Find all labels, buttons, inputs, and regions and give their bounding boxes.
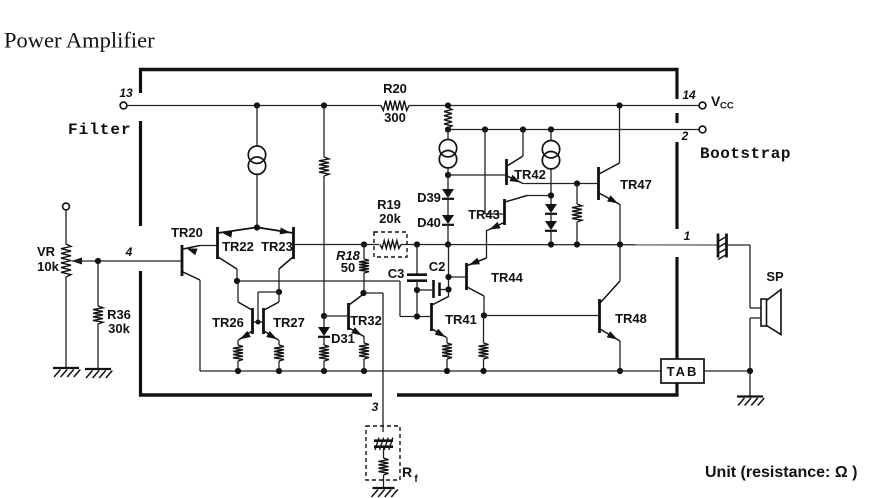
resistor R19 (374, 197, 407, 257)
wire TR22 collector (236, 269, 238, 281)
node pin4-R36 (95, 258, 101, 264)
svg-text:TR47: TR47 (620, 177, 652, 192)
wire TR42 collector (522, 130, 524, 157)
wire Cf-Rf (383, 448, 385, 458)
capacitor C3 (388, 266, 427, 281)
wire SP to ground (749, 318, 751, 396)
wire CS1 bottom (256, 174, 258, 227)
IC outline bottom border segment A (139, 393, 372, 396)
wire VCC rail left (127, 105, 381, 107)
wire R34 bottom (576, 222, 578, 245)
node C2-col (445, 286, 451, 292)
capacitor Cf (hatched) (374, 438, 393, 451)
wire TR48 emitter (619, 341, 621, 371)
svg-text:TR41: TR41 (445, 312, 477, 327)
wire TR20 emitter to TR22 base (200, 245, 216, 247)
svg-text:TAB: TAB (667, 364, 699, 379)
wire CS2 top (550, 130, 552, 142)
svg-text:CC: CC (720, 101, 734, 112)
resistor R18 (336, 248, 369, 275)
inductor L1 (output coil) (718, 234, 727, 260)
wire coil to SP (727, 245, 750, 308)
node rail-C3 (414, 241, 420, 247)
svg-text:4: 4 (125, 245, 133, 259)
node VCC-CS1 (254, 102, 260, 108)
wire TAB to ground (704, 370, 750, 372)
svg-text:2: 2 (681, 129, 689, 143)
svg-text:14: 14 (682, 88, 696, 102)
svg-text:3: 3 (372, 400, 379, 414)
wire R36 top (97, 261, 99, 306)
transistor TR23 (258, 227, 294, 269)
wire C2 left (417, 289, 432, 291)
svg-text:D39: D39 (417, 190, 441, 205)
wire R33 bottom (323, 176, 325, 316)
node rail-D42 (548, 241, 554, 247)
wire bottom rail (200, 370, 661, 372)
wire TR26 collector (237, 281, 239, 302)
wire bootstrap rail (448, 129, 699, 131)
svg-text:Unit (resistance: Ω ): Unit (resistance: Ω ) (705, 464, 857, 481)
IC outline right border segment D (675, 257, 678, 397)
wire TR22 collector to TR41 base (237, 281, 430, 317)
wire C3 top (416, 245, 418, 275)
wire pin 3 (364, 293, 384, 432)
node R22-rail (235, 368, 241, 374)
node VCC-TR47 (616, 102, 622, 108)
node C3-TR41base (414, 313, 420, 319)
wire TR27 collector (278, 292, 280, 302)
svg-text:Bootstrap: Bootstrap (700, 145, 791, 163)
wire CS3 top (447, 130, 449, 141)
transistor TR42 base wire (448, 174, 505, 176)
svg-text:Filter: Filter (68, 121, 132, 139)
transistor TR26 (212, 302, 252, 340)
node mirror bases (256, 320, 261, 325)
wire TR32 emitter (363, 336, 365, 343)
transistor TR44 (467, 258, 524, 296)
diode D39 (417, 189, 454, 205)
IC outline left border segment C (139, 271, 142, 397)
ground R36 (85, 369, 112, 378)
pin 4 wire with wiper arrow (72, 245, 181, 265)
svg-text:C3: C3 (388, 266, 405, 281)
svg-text:R19: R19 (377, 197, 401, 212)
svg-text:TR42: TR42 (514, 167, 546, 182)
wire TR44 base (449, 276, 466, 278)
node TR44base-col (445, 274, 451, 280)
label Bootstrap (700, 145, 791, 163)
transistor TR48 (600, 281, 647, 341)
node CS2-TR43coll (548, 192, 554, 198)
wire TR43 emitter (486, 230, 488, 258)
node CS3-TR42base (445, 172, 451, 178)
diode D40 (417, 215, 454, 230)
svg-text:VR: VR (37, 244, 56, 259)
svg-text:13: 13 (119, 86, 133, 100)
TAB box (661, 359, 704, 383)
resistor R26 (TR41 emitter) (442, 343, 452, 359)
svg-text:D31: D31 (331, 331, 355, 346)
feedback network Rf box (366, 426, 400, 480)
wire D41-D42 (550, 214, 552, 221)
title text (4, 28, 155, 53)
potentiometer VR terminal (63, 203, 70, 210)
resistor R34 (572, 204, 582, 222)
resistor R20 (381, 81, 409, 125)
node TR44coll (481, 312, 487, 318)
node bootstrap-CS2 (548, 126, 554, 132)
wire D39-D40 (447, 199, 449, 215)
wire D40 bottom (447, 225, 449, 245)
pin 1 label (684, 229, 691, 243)
svg-text:10k: 10k (37, 259, 59, 274)
wire TR44 coll to TR48 base (484, 315, 598, 317)
svg-text:TR32: TR32 (350, 313, 382, 328)
svg-text:R36: R36 (107, 307, 131, 322)
wire C3 bottom (416, 281, 418, 317)
wire R18 bottom (363, 273, 365, 293)
wire D31 top (323, 316, 325, 327)
svg-text:TR22: TR22 (222, 239, 254, 254)
transistor TR43 (468, 196, 527, 231)
ground SP (737, 397, 764, 406)
wire R33 top (323, 106, 325, 158)
wire TR44 collector (483, 296, 485, 316)
wire TR32 base (324, 315, 347, 317)
IC outline right border segment B (675, 113, 678, 123)
svg-text:R: R (402, 464, 412, 480)
current source CS1 (248, 146, 265, 174)
node VCC-R20 (445, 102, 451, 108)
resistor R23 (TR27 emitter) (274, 345, 284, 361)
speaker SP (750, 269, 784, 335)
wire C2 right (441, 289, 449, 291)
node R23-rail (276, 368, 282, 374)
pin 14 terminal (682, 88, 706, 109)
label Unit (resistance: ohm) (705, 464, 857, 481)
svg-text:TR43: TR43 (468, 207, 500, 222)
transistor TR20 (171, 225, 203, 276)
node bootstrap-TR42coll (520, 126, 526, 132)
wire R27 bottom (483, 359, 485, 371)
wire mid rail right (401, 244, 718, 246)
wire R34 top (576, 184, 578, 205)
wire VR top (65, 210, 67, 244)
IC outline top border (139, 68, 679, 71)
pin 13 terminal (119, 86, 133, 109)
wire TR43 collector (527, 195, 551, 197)
IC outline left border segment A (139, 68, 142, 93)
wire mid rail left (295, 244, 379, 246)
node TR23coll-TR27coll (276, 289, 282, 295)
svg-text:30k: 30k (108, 321, 130, 336)
wire TR41 emitter (446, 338, 448, 344)
node TR48e-rail (617, 368, 623, 374)
transistor TR42 (507, 156, 546, 185)
node TR22coll-mirror (234, 278, 240, 284)
node R18-TR32-pin3 (360, 290, 366, 296)
resistor R33 (319, 157, 329, 176)
node rail-R34 (574, 241, 580, 247)
wire TR42 emitter to TR47 base (523, 183, 597, 185)
IC outline bottom border segment B (397, 393, 679, 396)
node diff pair emitters (254, 224, 260, 230)
IC outline right border segment A (675, 68, 678, 99)
wire TR27 emitter (278, 340, 280, 345)
node TR42e-R34 (574, 180, 580, 186)
wire R26 bottom (446, 359, 448, 371)
wire R18 top (363, 245, 365, 260)
pin 2 terminal (681, 126, 706, 143)
potentiometer VR 10k (37, 244, 71, 277)
resistor R22 (TR26 emitter) (233, 345, 243, 361)
node R26-rail (444, 368, 450, 374)
node C3-C2 (414, 287, 420, 293)
node R25-rail (361, 368, 367, 374)
node SP-TAB-ground (747, 368, 753, 374)
node bootstrap-R21 (445, 126, 451, 132)
svg-text:TR23: TR23 (261, 239, 293, 254)
IC outline right border segment C (675, 142, 678, 229)
wire D31 bottom (323, 337, 325, 345)
diode D42 (545, 221, 557, 231)
svg-text:SP: SP (766, 269, 784, 284)
svg-text:D40: D40 (417, 215, 441, 230)
node output (rail-TR47-TR48) (617, 241, 623, 247)
wire R27 top (483, 316, 485, 344)
label VCC (711, 93, 734, 112)
wire mirror bridge (252, 292, 279, 322)
node VCC-R33 (321, 102, 327, 108)
IC outline left border segment B (139, 121, 142, 226)
resistor R25 (TR32 emitter) (359, 343, 369, 359)
svg-text:TR44: TR44 (491, 270, 524, 285)
wire TR47 emitter (619, 204, 621, 245)
node R33-TR32base-D31 (321, 313, 327, 319)
resistor R24 (below D31) (319, 345, 329, 361)
wire TR43 base from bootstrap (485, 130, 503, 215)
wire R24 bottom (323, 361, 325, 371)
transistor TR22 (218, 227, 257, 269)
wire CS1 top (256, 106, 258, 147)
current source CS2 (542, 141, 559, 169)
svg-text:50: 50 (341, 260, 355, 275)
svg-text:TR20: TR20 (171, 225, 203, 240)
transistor TR27 (264, 302, 305, 340)
wire R22 bottom (237, 361, 239, 371)
wire R23 bottom (278, 361, 280, 371)
node rail-R18 (361, 241, 367, 247)
capacitor C2 (429, 259, 446, 298)
resistor Rf (379, 458, 419, 485)
svg-text:1: 1 (684, 229, 691, 243)
svg-text:TR27: TR27 (273, 315, 305, 330)
node bootstrap-TR43base (482, 126, 488, 132)
wire VCC rail right (409, 105, 699, 107)
svg-text:TR48: TR48 (615, 311, 647, 326)
svg-text:R20: R20 (383, 81, 407, 96)
wire R36 bottom (97, 324, 99, 368)
resistor R27 (479, 343, 489, 359)
wire D42 bottom (550, 231, 552, 245)
diode D31 (318, 327, 355, 346)
svg-text:TR26: TR26 (212, 315, 244, 330)
wire CS3 bottom (447, 168, 449, 189)
wire TR47 collector (619, 106, 621, 164)
wire TR20 collector down (183, 272, 200, 371)
ground VR (53, 368, 80, 377)
wire CS2 bottom (550, 169, 552, 204)
resistor R36 (93, 306, 131, 336)
diode D41 (545, 204, 557, 214)
wire Rf bottom (383, 475, 385, 487)
resistor R21 (VCC to bootstrap) (444, 108, 452, 129)
ground Rf (372, 488, 398, 497)
svg-text:C2: C2 (429, 259, 446, 274)
node rail-D40 (445, 241, 451, 247)
transistor TR47 (599, 163, 652, 205)
label Filter (68, 121, 132, 139)
transistor TR32 (349, 294, 382, 337)
svg-text:300: 300 (384, 110, 406, 125)
wire TR26 emitter (237, 340, 239, 345)
svg-text:20k: 20k (379, 211, 401, 226)
wire TR23 collector (278, 269, 280, 292)
wire TR48 collector (619, 245, 621, 282)
transistor TR41 (432, 297, 477, 338)
wire TR41 collector column (448, 245, 450, 298)
wire R25 bottom (363, 359, 365, 371)
wire VR bottom (65, 277, 67, 367)
node R24-rail (321, 368, 327, 374)
svg-text:Power Amplifier: Power Amplifier (4, 28, 155, 53)
current source CS3 (439, 140, 456, 168)
node R27-rail (480, 368, 486, 374)
svg-text:f: f (414, 474, 418, 485)
